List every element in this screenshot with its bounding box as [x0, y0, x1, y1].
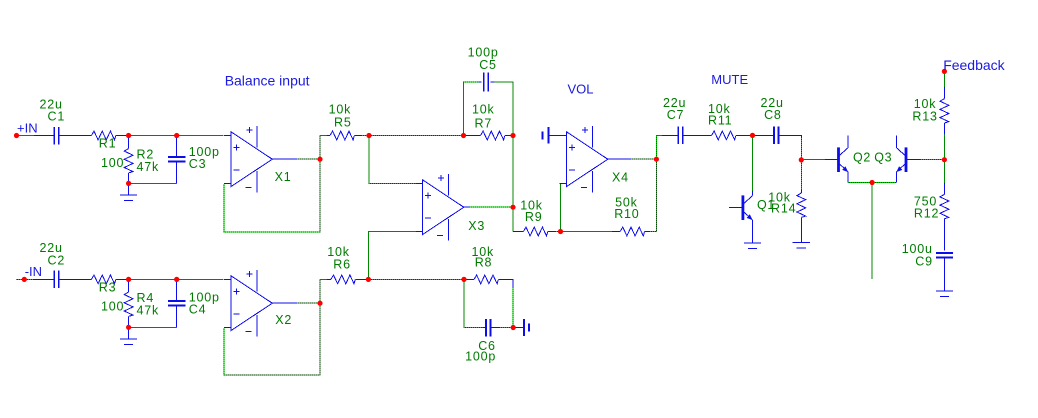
- svg-text:MUTE: MUTE: [711, 72, 748, 87]
- svg-text:VOL: VOL: [568, 81, 594, 96]
- svg-text:Balance input: Balance input: [225, 72, 310, 88]
- svg-text:C1: C1: [48, 110, 66, 124]
- svg-text:10k: 10k: [472, 103, 495, 117]
- svg-text:R6: R6: [333, 257, 351, 271]
- svg-text:C5: C5: [479, 58, 497, 72]
- svg-text:R5: R5: [334, 115, 352, 129]
- svg-text:R1: R1: [99, 137, 117, 151]
- svg-text:R7: R7: [475, 117, 493, 131]
- svg-text:47k: 47k: [137, 304, 160, 318]
- svg-text:Feedback: Feedback: [943, 57, 1005, 73]
- svg-text:+IN: +IN: [17, 120, 38, 135]
- svg-text:Q3: Q3: [874, 151, 892, 165]
- svg-text:C2: C2: [48, 253, 66, 267]
- svg-text:47k: 47k: [137, 160, 160, 174]
- svg-text:R13: R13: [912, 110, 937, 124]
- svg-text:100: 100: [101, 156, 124, 170]
- svg-text:R10: R10: [614, 207, 639, 221]
- svg-text:R8: R8: [475, 256, 493, 270]
- svg-text:X3: X3: [468, 219, 485, 233]
- svg-text:-IN: -IN: [25, 264, 42, 279]
- svg-text:R11: R11: [708, 113, 732, 127]
- svg-text:R3: R3: [99, 280, 117, 294]
- svg-text:C4: C4: [189, 303, 207, 317]
- svg-text:X1: X1: [275, 170, 292, 184]
- svg-text:100: 100: [101, 300, 124, 314]
- svg-text:C8: C8: [764, 108, 782, 122]
- svg-text:R9: R9: [525, 210, 543, 224]
- svg-text:X4: X4: [612, 171, 629, 185]
- svg-text:C7: C7: [667, 108, 685, 122]
- svg-text:Q2: Q2: [853, 151, 871, 165]
- svg-text:C3: C3: [189, 157, 207, 171]
- svg-text:R12: R12: [914, 206, 939, 220]
- svg-text:100p: 100p: [465, 350, 496, 364]
- svg-text:C9: C9: [915, 255, 933, 269]
- svg-text:R14: R14: [771, 202, 796, 216]
- svg-text:X2: X2: [275, 313, 292, 327]
